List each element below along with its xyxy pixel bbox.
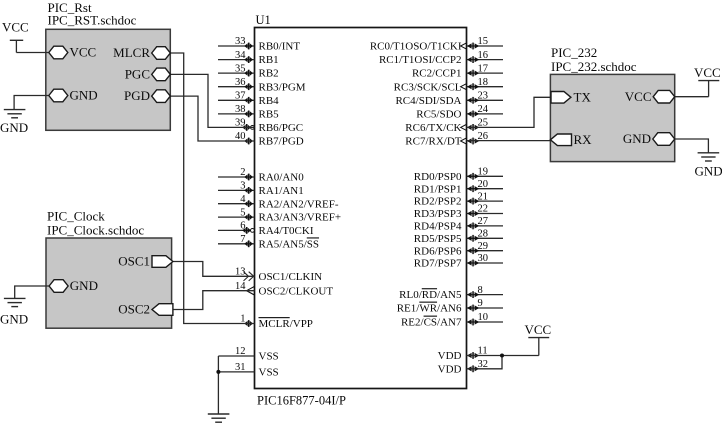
svg-text:24: 24 [478, 104, 489, 115]
svg-text:29: 29 [478, 241, 489, 252]
svg-text:RD1/PSP1: RD1/PSP1 [414, 183, 462, 195]
svg-text:RD5/PSP5: RD5/PSP5 [414, 233, 462, 245]
svg-text:33: 33 [235, 36, 246, 47]
svg-text:RC6/TX/CK: RC6/TX/CK [405, 122, 461, 134]
svg-text:38: 38 [235, 104, 246, 115]
svg-text:VDD: VDD [438, 350, 462, 362]
svg-text:RE2/CS/AN7: RE2/CS/AN7 [401, 317, 462, 329]
svg-text:VCC: VCC [694, 65, 721, 80]
svg-text:RC4/SDI/SDA: RC4/SDI/SDA [395, 95, 461, 107]
svg-text:RC1/T1OSI/CCP2: RC1/T1OSI/CCP2 [379, 54, 462, 66]
svg-text:MLCR: MLCR [113, 45, 150, 60]
svg-text:RB2: RB2 [259, 68, 279, 80]
svg-text:GND: GND [70, 278, 98, 293]
svg-text:16: 16 [478, 50, 489, 61]
svg-text:RB5: RB5 [259, 109, 280, 121]
svg-text:35: 35 [235, 63, 246, 74]
svg-text:RD6/PSP6: RD6/PSP6 [414, 245, 462, 257]
svg-text:OSC2/CLKOUT: OSC2/CLKOUT [259, 285, 334, 297]
svg-text:PIC_Clock: PIC_Clock [47, 209, 105, 224]
svg-text:RD0/PSP0: RD0/PSP0 [414, 171, 462, 183]
svg-text:GND: GND [623, 131, 651, 146]
svg-text:PIC16F877-04I/P: PIC16F877-04I/P [257, 394, 346, 408]
svg-text:27: 27 [478, 216, 489, 227]
svg-text:RA3/AN3/VREF+: RA3/AN3/VREF+ [259, 212, 342, 224]
svg-text:RA1/AN1: RA1/AN1 [259, 185, 304, 197]
svg-text:VDD: VDD [438, 363, 462, 375]
svg-text:RB0/INT: RB0/INT [259, 41, 301, 53]
svg-text:RA4/T0CKI: RA4/T0CKI [259, 225, 314, 237]
svg-text:RB6/PGC: RB6/PGC [259, 122, 304, 134]
svg-text:RL0/RD/AN5: RL0/RD/AN5 [399, 289, 462, 301]
svg-text:VSS: VSS [259, 367, 279, 379]
svg-text:34: 34 [235, 50, 246, 61]
svg-text:5: 5 [240, 207, 245, 218]
svg-text:RB7/PGD: RB7/PGD [259, 136, 304, 148]
svg-text:RD7/PSP7: RD7/PSP7 [414, 258, 462, 270]
svg-text:VCC: VCC [625, 89, 652, 104]
svg-text:RC3/SCK/SCL: RC3/SCK/SCL [394, 81, 462, 93]
svg-text:PGD: PGD [124, 88, 150, 103]
svg-text:GND: GND [0, 312, 28, 327]
svg-text:PGC: PGC [125, 67, 150, 82]
svg-text:19: 19 [478, 167, 489, 178]
svg-text:OSC1: OSC1 [118, 254, 150, 269]
svg-text:RC2/CCP1: RC2/CCP1 [412, 68, 462, 80]
svg-text:10: 10 [478, 312, 489, 323]
svg-text:22: 22 [478, 204, 489, 215]
svg-text:OSC2: OSC2 [118, 302, 150, 317]
svg-text:3: 3 [240, 181, 245, 192]
svg-text:MCLR/VPP: MCLR/VPP [259, 318, 313, 330]
svg-text:15: 15 [478, 36, 489, 47]
svg-text:36: 36 [235, 77, 246, 88]
svg-text:VCC: VCC [525, 322, 552, 337]
svg-text:20: 20 [478, 179, 489, 190]
svg-text:RC5/SDO: RC5/SDO [416, 109, 461, 121]
svg-text:RB3/PGM: RB3/PGM [259, 81, 306, 93]
svg-text:IPC_232.schdoc: IPC_232.schdoc [551, 59, 637, 74]
svg-text:RA5/AN5/SS: RA5/AN5/SS [259, 238, 320, 250]
svg-text:RX: RX [574, 132, 593, 147]
svg-text:7: 7 [240, 234, 245, 245]
svg-text:RB1: RB1 [259, 54, 279, 66]
svg-text:2: 2 [240, 167, 245, 178]
svg-text:VCC: VCC [70, 45, 97, 60]
svg-text:TX: TX [574, 89, 592, 104]
svg-text:21: 21 [478, 191, 489, 202]
svg-text:37: 37 [235, 91, 246, 102]
svg-text:30: 30 [478, 253, 489, 264]
svg-text:23: 23 [478, 91, 489, 102]
svg-text:GND: GND [0, 120, 28, 135]
svg-text:OSC1/CLKIN: OSC1/CLKIN [259, 271, 323, 283]
svg-text:17: 17 [478, 63, 489, 74]
svg-text:RA2/AN2/VREF-: RA2/AN2/VREF- [259, 198, 339, 210]
svg-text:28: 28 [478, 229, 489, 240]
svg-text:GND: GND [70, 88, 98, 103]
svg-text:GND: GND [695, 164, 722, 179]
svg-text:RA0/AN0: RA0/AN0 [259, 172, 305, 184]
svg-text:18: 18 [478, 77, 489, 88]
svg-text:RB4: RB4 [259, 95, 280, 107]
svg-text:U1: U1 [256, 13, 271, 27]
svg-text:VCC: VCC [2, 20, 29, 35]
svg-text:RC0/T1OSO/T1CKI: RC0/T1OSO/T1CKI [370, 41, 462, 53]
svg-text:IPC_Clock.schdoc: IPC_Clock.schdoc [47, 223, 144, 238]
svg-text:IPC_RST.schdoc: IPC_RST.schdoc [48, 13, 137, 28]
svg-text:RD4/PSP4: RD4/PSP4 [414, 221, 462, 233]
svg-text:RD3/PSP3: RD3/PSP3 [414, 208, 462, 220]
svg-text:VSS: VSS [259, 351, 279, 363]
svg-text:RE1/WR/AN6: RE1/WR/AN6 [397, 303, 462, 315]
svg-text:RD2/PSP2: RD2/PSP2 [414, 196, 462, 208]
svg-text:RC7/RX/DT: RC7/RX/DT [405, 136, 462, 148]
